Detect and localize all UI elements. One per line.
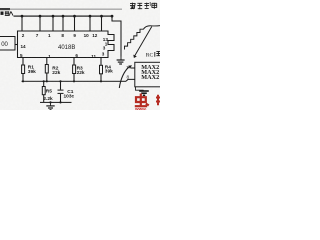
MAX filter box (clipped at right): [135, 62, 162, 87]
annotation arrow to filter input: [119, 65, 132, 88]
label RC滤波 (RC filter): [146, 51, 161, 58]
IC U1 4018B box: [18, 31, 115, 58]
resistor R5: [42, 81, 53, 102]
junction dots on bottom rail: [49, 101, 61, 103]
resistor R4: [100, 64, 114, 74]
label 输入 (input): [5, 11, 13, 15]
wire pin to R3: [73, 58, 75, 66]
junction dots on bus: [22, 80, 102, 82]
wire drops from rail to IC pins: [22, 16, 102, 31]
capacitor C1: [58, 81, 75, 102]
ground GND3 at axis bottom: [117, 60, 125, 64]
red watermark www: [134, 107, 147, 112]
top border scan line: [0, 8, 122, 10]
wire pin to R2: [46, 58, 48, 65]
resistor R1: [22, 64, 37, 75]
paper noise overlay: [0, 0, 160, 110]
MAX pin 1: [126, 65, 135, 70]
wire pin to R4: [100, 58, 102, 66]
waveform axis vertical: [120, 21, 122, 60]
right pin numbers: [103, 37, 109, 50]
wires resistors to summing bus: [23, 73, 101, 82]
red watermark partial char right edge: [156, 95, 161, 105]
input terminal dot: [1, 12, 4, 15]
MAX pin 8: [127, 75, 130, 80]
junction dots on rail: [21, 15, 114, 18]
top pin numbers: [22, 33, 98, 38]
red watermark 虫: [135, 94, 149, 107]
wire jog at rail right end: [112, 16, 121, 56]
resistor R2: [45, 65, 60, 77]
IC label 4018B: [58, 45, 75, 51]
wire input box to pin 14: [15, 44, 18, 46]
left pin number 14: [21, 44, 27, 49]
summing bus wire: [22, 79, 136, 81]
bottom rail R5/C1: [40, 102, 72, 103]
top input rail: [14, 16, 113, 17]
input source box (clipped at left edge): [0, 37, 15, 51]
wire pin to R1: [22, 58, 24, 65]
staircase waveform: [125, 26, 161, 58]
label 数字输出 (digital output): [130, 3, 157, 10]
ground GND1: [46, 102, 54, 109]
background: [0, 0, 160, 110]
bottom pin numbers: [20, 51, 105, 59]
ground GND2 under MAX box: [136, 87, 149, 96]
resistor R3: [73, 65, 85, 76]
